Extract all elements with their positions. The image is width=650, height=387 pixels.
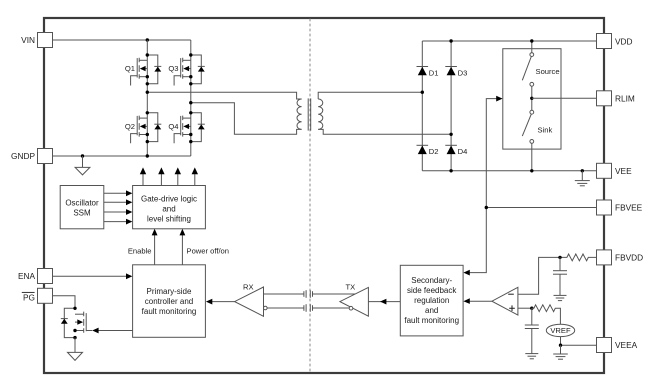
resistor R2 (VREF) — [532, 305, 561, 324]
node A (Q1/Q2 midpoint) — [146, 91, 149, 94]
pin PG (active low) — [22, 288, 53, 303]
svg-text:side feedback: side feedback — [407, 286, 457, 295]
svg-text:fault monitoring: fault monitoring — [404, 316, 459, 325]
svg-text:FBVEE: FBVEE — [615, 203, 643, 213]
wire transformer secondary bottom to D3/D4 node — [318, 129, 451, 134]
node GNDP ground tap — [81, 154, 84, 157]
pin FBVDD — [597, 250, 644, 265]
block U2 Source/Sink output stage — [503, 49, 561, 149]
wire ENA to primary controller — [53, 273, 133, 279]
block U5 primary-side controller — [133, 265, 206, 338]
svg-text:Sink: Sink — [538, 126, 553, 135]
pin RLIM — [597, 91, 635, 106]
wire oscillator to gate-drive 1 — [104, 190, 133, 196]
transformer T1 primary winding — [297, 99, 302, 129]
transistor Q5 (PG pull-down, mirrored) — [61, 307, 92, 340]
transistor Q4 — [168, 111, 204, 143]
wire rectifier leg D1/D2 — [421, 41, 423, 171]
block U6 secondary-side feedback — [400, 265, 463, 336]
transistor Q3 — [168, 53, 204, 85]
svg-text:VEEA: VEEA — [615, 340, 638, 350]
ground (C1) — [554, 295, 567, 300]
transformer T1 secondary winding — [318, 99, 323, 129]
node VDD source-sink tap — [530, 39, 533, 42]
svg-text:VEE: VEE — [615, 166, 632, 176]
svg-text:D4: D4 — [458, 147, 468, 156]
svg-text:RX: RX — [243, 282, 254, 291]
switch Source — [522, 53, 559, 87]
node D3/D4 midpoint — [449, 133, 452, 136]
switch Sink — [522, 110, 552, 143]
arrow into secondary-side block (top) — [463, 270, 469, 276]
ground (below Q5) — [68, 352, 83, 360]
node VIN/Q1 junction — [146, 38, 149, 41]
node B (Q3/Q4 midpoint) — [189, 101, 192, 104]
pin VDD — [597, 34, 633, 49]
svg-text:ENA: ENA — [18, 271, 36, 281]
wire GNDP rail — [53, 155, 191, 157]
wire feedback sense (FBVEE net) — [469, 99, 498, 273]
wire Q1/Q2 bridge leg — [146, 40, 148, 156]
svg-text:Oscillator: Oscillator — [65, 199, 99, 208]
svg-text:Q3: Q3 — [168, 64, 178, 73]
wire VIN rail — [53, 39, 191, 41]
wire RX output to primary controller — [206, 299, 235, 305]
pin VIN — [21, 33, 52, 48]
svg-text:D1: D1 — [429, 68, 439, 77]
block U4 gate-drive logic — [133, 186, 206, 229]
svg-text:Primary-side: Primary-side — [147, 287, 192, 296]
diode D1 — [417, 67, 439, 78]
wire FBVDD divider to comparator inverting input — [518, 257, 560, 294]
transistor Q1 — [125, 53, 161, 85]
op-amp U7 error comparator — [492, 287, 518, 315]
wire RX lower isolation line — [267, 307, 304, 309]
svg-text:and: and — [162, 205, 175, 214]
svg-text:D2: D2 — [429, 147, 439, 156]
wire comparator non-inverting input — [518, 307, 532, 309]
wire PG pin to Q5 drain — [53, 296, 76, 309]
wire comparator output to secondary block — [463, 298, 492, 304]
node Q2 GNDP junction — [146, 154, 149, 157]
wire VDD rail — [422, 40, 596, 42]
svg-text:SSM: SSM — [73, 209, 91, 218]
wire RX upper isolation line — [264, 293, 304, 295]
wire RLIM node to pin — [532, 97, 597, 99]
wire source switch to RLIM node — [531, 86, 533, 110]
svg-text:Enable: Enable — [128, 246, 152, 255]
svg-text:level shifting: level shifting — [147, 215, 191, 224]
pin GNDP — [11, 149, 52, 164]
wire TX upper isolation line — [313, 293, 356, 295]
svg-text:Q4: Q4 — [168, 122, 178, 131]
svg-text:RLIM: RLIM — [615, 94, 635, 104]
arrow into source/sink block — [496, 96, 502, 102]
node D4 VEE junction — [449, 169, 452, 172]
svg-text:Secondary-: Secondary- — [411, 276, 452, 285]
node non-inverting input tap — [530, 307, 533, 310]
node FBVDD divider tap — [558, 256, 561, 259]
wire gate drive output 4 — [192, 167, 198, 185]
wire FBVEE pin to sense net — [486, 207, 596, 209]
IC boundary — [44, 18, 604, 373]
capacitor isolation upper pair — [304, 290, 313, 298]
wire gate drive output 3 — [175, 167, 181, 185]
wire gate drive output 1 — [140, 167, 146, 185]
wire VREF to VEEA — [559, 337, 597, 347]
resistor R1 (FBVDD) — [560, 254, 597, 261]
wire gate drive output 2 — [158, 167, 164, 185]
svg-text:Q1: Q1 — [125, 64, 135, 73]
op-amp RX buffer — [235, 282, 268, 316]
op-amp TX buffer — [340, 282, 369, 316]
wire oscillator to gate-drive 2 — [104, 199, 133, 205]
svg-text:D3: D3 — [458, 68, 468, 77]
pin VEE — [597, 163, 633, 178]
ground (C2) — [525, 354, 538, 359]
node sink VEE junction — [530, 169, 533, 172]
svg-text:controller and: controller and — [145, 297, 193, 306]
wire VDD to source switch — [531, 41, 533, 53]
pin ENA — [18, 269, 53, 284]
wire Power off/on (primary controller to gate-drive) — [180, 229, 230, 265]
isolation barrier (dashed) — [309, 19, 311, 373]
transformer T1 core — [307, 98, 309, 130]
wire rectifier leg D3/D4 — [450, 41, 452, 171]
pin FBVEE — [597, 200, 643, 215]
wire sink switch to VEE rail — [531, 143, 533, 171]
wire bridge midpoint B to transformer primary bottom — [191, 103, 302, 135]
wire oscillator to gate-drive 3 — [104, 209, 133, 215]
diode D4 — [445, 145, 467, 156]
wire Q5 source to ground — [74, 338, 76, 353]
svg-text:Source: Source — [536, 67, 560, 76]
svg-text:Power off/on: Power off/on — [187, 246, 230, 255]
wire transformer secondary top to D1/D2 node — [318, 92, 422, 99]
ground (primary, below GNDP rail) — [75, 156, 90, 175]
wire bridge midpoint A to transformer primary top — [147, 92, 301, 99]
svg-text:VREF: VREF — [550, 326, 571, 335]
node D3 VDD junction — [449, 39, 452, 42]
capacitor isolation lower pair — [304, 304, 313, 312]
wire secondary block to TX input — [368, 299, 400, 305]
capacitor C2 — [525, 308, 539, 353]
svg-text:Q2: Q2 — [125, 122, 135, 131]
svg-text:Gate-drive logic: Gate-drive logic — [141, 195, 197, 204]
svg-text:GNDP: GNDP — [11, 151, 35, 161]
capacitor C1 — [553, 257, 567, 295]
wire VEE rail — [422, 170, 596, 172]
pin VEEA — [597, 338, 638, 353]
block U3 oscillator — [60, 186, 104, 229]
svg-text:and: and — [425, 306, 438, 315]
voltage reference VREF — [546, 324, 574, 336]
wire Q3/Q4 bridge leg — [190, 40, 192, 156]
wire Enable (primary controller to gate-drive) — [128, 229, 158, 265]
svg-text:regulation: regulation — [414, 296, 449, 305]
ground (VREF) — [553, 345, 568, 359]
svg-text:PG: PG — [23, 292, 35, 302]
wire oscillator to gate-drive 4 — [104, 219, 133, 225]
svg-text:VIN: VIN — [21, 35, 35, 45]
svg-text:FBVDD: FBVDD — [615, 253, 643, 263]
diode D3 — [445, 67, 467, 78]
wire TX lower isolation line — [313, 307, 350, 309]
node D1/D2 midpoint — [421, 91, 424, 94]
node FBVEE junction — [485, 206, 488, 209]
svg-text:TX: TX — [346, 282, 356, 291]
ground (VEE rail) — [575, 169, 590, 186]
svg-text:fault monitoring: fault monitoring — [142, 307, 197, 316]
wire primary controller to Q5 gate — [92, 328, 132, 334]
diode D2 — [417, 145, 439, 156]
node RLIM — [530, 97, 533, 100]
svg-text:VDD: VDD — [615, 36, 633, 46]
transistor Q2 — [125, 111, 161, 143]
